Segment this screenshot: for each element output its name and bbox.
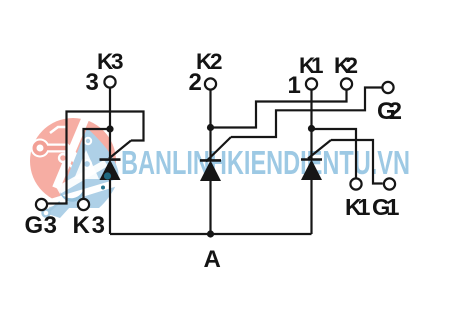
logo blue A lower-left foot xyxy=(45,196,70,218)
terminal circle K3 bottom xyxy=(78,199,89,210)
logo white ring node on A lower xyxy=(83,160,91,168)
logo white ring node on A xyxy=(85,138,91,144)
logo white trace ring 2 xyxy=(59,154,67,162)
node: A bus junction dot xyxy=(207,230,214,237)
wire: A bus horizontal xyxy=(110,233,312,235)
svg-text:K3: K3 xyxy=(97,49,124,74)
wire: G1 lead from T1 gate to G1 terminal xyxy=(331,140,383,184)
node: T2 junction dot xyxy=(207,124,214,131)
terminal circle G2 xyxy=(382,82,393,93)
thyristor T2 triangle xyxy=(200,160,221,181)
svg-text:3: 3 xyxy=(86,69,99,96)
svg-text:BANLINHKIENDIENTU.VN: BANLINHKIENDIENTU.VN xyxy=(121,144,410,181)
wire: G3 lead from terminal up and over to T3 gate xyxy=(48,112,144,204)
wire: T3 cathode lead from K3 top circle down to bar xyxy=(109,89,111,161)
svg-text:K1: K1 xyxy=(345,194,371,220)
logo blue trace ring bottom-left xyxy=(43,210,50,217)
wire: T1 cathode lead from K1 top circle down to bar xyxy=(310,91,312,160)
wire: T3 gate diagonal xyxy=(109,141,131,159)
logo salmon trace ring 1 xyxy=(35,143,46,154)
svg-text:K3: K3 xyxy=(73,212,106,239)
thyristor T2 cathode bar xyxy=(200,159,221,162)
wire: T1 anode lead from triangle base down to A bus xyxy=(310,180,312,235)
thyristor T3 cathode bar xyxy=(100,158,121,161)
terminal circle K1 bottom xyxy=(350,178,361,189)
node: T1 junction dot xyxy=(308,125,315,132)
logo white inner notch of A xyxy=(74,150,99,179)
svg-text:2: 2 xyxy=(189,69,202,96)
wire: T3 anode lead from triangle base down to A bus xyxy=(109,180,111,234)
terminal circle K2 top xyxy=(205,78,216,89)
logo salmon trace bar xyxy=(46,146,66,151)
logo white trace line 2 xyxy=(66,161,75,170)
svg-text:G2: G2 xyxy=(377,98,402,125)
logo red circle xyxy=(30,118,116,204)
svg-text:G3: G3 xyxy=(25,212,58,239)
logo blue letter A body xyxy=(55,128,118,208)
logo white trace upper nick xyxy=(50,127,67,133)
logo blue trace line bottom-left xyxy=(49,202,60,211)
terminal circle G1 xyxy=(384,178,395,189)
terminal circle K3 top xyxy=(104,76,115,87)
logo white halo around ring 1 xyxy=(31,139,50,158)
thyristor T1 triangle xyxy=(301,160,322,181)
wire: G2 lead from terminal down and left to T2 gate xyxy=(231,88,382,138)
terminal circle G3 xyxy=(36,199,47,210)
thyristor T3 triangle xyxy=(100,160,121,180)
wire: T3 aux cathode from node down to K3 bottom terminal xyxy=(84,129,111,199)
svg-text:K2: K2 xyxy=(334,53,358,78)
terminal circle K2 right xyxy=(341,78,352,89)
logo white slash xyxy=(56,117,86,188)
logo white band 2 across A xyxy=(56,160,108,194)
wire: T1 aux cathode from node right to K1 bottom terminal xyxy=(312,129,357,178)
terminal circle K1 top xyxy=(306,78,317,89)
svg-text:K1: K1 xyxy=(299,53,324,78)
logo white band across A xyxy=(50,177,124,207)
logo watermark background emblem xyxy=(30,117,124,218)
logo blue crescent xyxy=(60,187,84,202)
wire: T2 gate diagonal xyxy=(206,137,231,162)
svg-text:G1: G1 xyxy=(372,194,400,220)
wire: T2 anode lead from triangle base down to A bus xyxy=(209,181,211,235)
node: T3 junction dot xyxy=(106,125,113,132)
svg-text:A: A xyxy=(204,246,221,273)
thyristor T1 cathode bar xyxy=(301,158,322,161)
wire: T2 cathode lead from K2 top circle down to bar xyxy=(209,91,211,161)
svg-text:1: 1 xyxy=(288,72,301,99)
logo teal dot over T3 triangle xyxy=(104,172,111,179)
wire: T1 gate diagonal xyxy=(308,140,331,159)
logo teal small dot xyxy=(101,186,105,190)
wire: T2 aux cathode from node right/up to K2 right terminal xyxy=(211,91,347,128)
logo white trace channel xyxy=(46,148,78,161)
